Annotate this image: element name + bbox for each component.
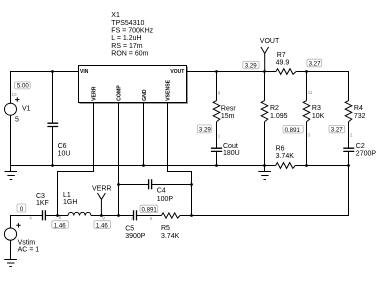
svg-text:C5: C5 xyxy=(125,225,134,232)
svg-text:VOUT: VOUT xyxy=(170,69,184,75)
svg-text:C6: C6 xyxy=(58,143,67,150)
svg-text:1.46: 1.46 xyxy=(96,222,108,229)
svg-text:0.891: 0.891 xyxy=(142,206,158,213)
svg-text:GND: GND xyxy=(142,89,148,101)
svg-text:AC = 1: AC = 1 xyxy=(18,247,40,254)
svg-text:3.74K: 3.74K xyxy=(276,153,295,160)
svg-text:732: 732 xyxy=(354,113,366,120)
svg-text:3900P: 3900P xyxy=(125,233,146,240)
svg-text:1KF: 1KF xyxy=(36,200,49,207)
svg-text:R7: R7 xyxy=(277,52,286,59)
svg-text:3.29: 3.29 xyxy=(199,127,211,134)
svg-text:L1: L1 xyxy=(63,192,71,199)
svg-text:Resr: Resr xyxy=(221,106,236,113)
svg-text:2700P: 2700P xyxy=(356,150,377,157)
svg-text:R4: R4 xyxy=(354,105,363,112)
svg-text:R5: R5 xyxy=(161,225,170,232)
svg-text:1GH: 1GH xyxy=(63,199,77,206)
svg-text:3.27: 3.27 xyxy=(331,127,343,134)
svg-text:RS = 17m: RS = 17m xyxy=(111,43,142,50)
svg-text:10U: 10U xyxy=(58,151,71,158)
svg-text:R3: R3 xyxy=(312,105,321,112)
svg-text:3.74K: 3.74K xyxy=(161,233,180,240)
svg-text:TPS54310: TPS54310 xyxy=(111,20,144,27)
svg-text:FS = 700KHz: FS = 700KHz xyxy=(111,28,153,35)
svg-text:C4: C4 xyxy=(157,188,166,195)
svg-text:3.29: 3.29 xyxy=(245,63,257,70)
svg-text:COMP: COMP xyxy=(117,85,123,101)
svg-text:V1: V1 xyxy=(22,106,31,113)
svg-text:10: 10 xyxy=(12,92,18,97)
svg-text:C2: C2 xyxy=(356,143,365,150)
svg-text:1.46: 1.46 xyxy=(54,222,66,229)
svg-text:RON = 60m: RON = 60m xyxy=(111,50,148,57)
svg-text:100P: 100P xyxy=(157,196,174,203)
svg-text:15m: 15m xyxy=(221,113,235,120)
svg-text:5: 5 xyxy=(15,116,19,123)
svg-text:X1: X1 xyxy=(111,12,120,19)
svg-text:VERR: VERR xyxy=(92,185,111,192)
svg-text:0.891: 0.891 xyxy=(285,127,301,134)
svg-text:1.095: 1.095 xyxy=(270,113,288,120)
svg-text:11: 11 xyxy=(308,90,313,95)
svg-text:180U: 180U xyxy=(223,150,240,157)
svg-text:VOUT: VOUT xyxy=(260,38,280,45)
svg-text:Vstim: Vstim xyxy=(18,240,36,247)
svg-text:VSENSE: VSENSE xyxy=(166,79,172,101)
svg-text:R2: R2 xyxy=(270,105,279,112)
svg-text:R6: R6 xyxy=(276,145,285,152)
svg-text:Cout: Cout xyxy=(223,143,238,150)
svg-text:5.00: 5.00 xyxy=(17,83,29,90)
svg-text:L = 1.2uH: L = 1.2uH xyxy=(111,35,141,42)
svg-text:10K: 10K xyxy=(312,113,325,120)
svg-text:3.27: 3.27 xyxy=(309,61,321,68)
svg-text:49.9: 49.9 xyxy=(276,60,290,67)
svg-text:VIN: VIN xyxy=(80,69,89,75)
svg-text:VERR: VERR xyxy=(92,86,98,101)
